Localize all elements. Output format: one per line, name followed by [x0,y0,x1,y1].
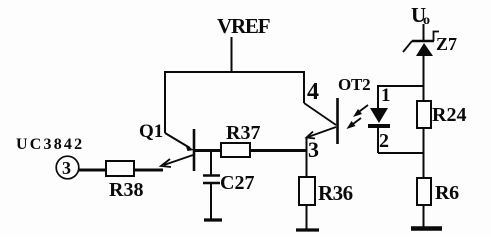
svg-text:1: 1 [381,85,391,106]
wire pin1 to LED anode [377,86,379,108]
capacitor C27 top plate [203,174,220,176]
wire VREF horizontal rail [164,71,304,73]
svg-text:UC3842: UC3842 [16,136,84,153]
resistor R38 body [106,161,134,176]
zener Z7 cathode bar [412,40,434,42]
ground under R6 [411,226,442,231]
svg-text:R6: R6 [435,182,459,204]
transistor Q1 collector diagonal [164,155,193,165]
wire pin2 bottom horizontal [378,152,424,154]
svg-text:R36: R36 [318,181,353,205]
zener Z7 right hook [434,32,440,42]
OT2 emitter open arrowhead [307,132,316,139]
wire R24 to R6 [423,128,425,178]
transistor Q1 base bar [193,129,196,171]
svg-text:2: 2 [379,130,389,152]
transistor Q1 emitter diagonal [165,133,190,148]
wire R36 bottom lead [306,205,308,229]
wire Uo to zener [423,24,425,41]
capacitor C27 bottom plate [203,182,220,184]
transistor Q1 collector open arrowhead [161,159,171,167]
svg-text:OT2: OT2 [338,75,370,94]
zener Z7 left wing [403,41,412,52]
wire left drop to Q1 emitter [164,71,166,133]
wire R38 to Q1 collector [134,169,163,172]
LED cathode bar [368,124,390,128]
svg-text:VREF: VREF [217,14,270,38]
wire VREF drop [231,37,233,72]
OT2 phototransistor emitter diagonal [308,127,336,137]
capacitor C27 bottom lead [210,183,212,219]
OT2 phototransistor bar [336,98,339,144]
wire pin 4 drop [303,71,305,103]
wire Q1 base to node 3 (thick) [195,149,306,152]
pin 3 circle of UC3842 [56,156,79,179]
svg-text:3: 3 [62,158,71,178]
wire R6 to ground [423,205,425,227]
svg-text:4: 4 [307,79,319,105]
wire pin 3 short drop [306,137,308,151]
svg-text:C27: C27 [220,172,254,194]
OT2 phototransistor collector diagonal [304,103,336,125]
wire R36 top lead [306,151,308,177]
transistor Q1 emitter arrowhead [186,145,195,151]
wire circle to R38 [79,169,106,172]
ground under R36 [296,228,319,231]
light arrow upper [353,105,368,117]
LED of OT2 (filled triangle) [370,108,388,123]
wire LED cathode down [377,128,379,153]
resistor R6 body [417,178,431,205]
svg-text:R38: R38 [109,179,143,201]
capacitor C27 top lead [210,151,212,175]
resistor R36 body [299,177,315,205]
zener Z7 anode triangle [416,43,433,56]
resistor R37 body [221,143,250,157]
svg-text:Q1: Q1 [139,121,163,142]
resistor R24 body [417,101,431,128]
ground under C27 [204,218,222,221]
wire pin1 bracket horizontal [377,85,424,87]
wire zener to rail [423,55,425,101]
svg-text:R24: R24 [432,104,466,126]
light arrow lower [347,118,362,129]
svg-text:Z7: Z7 [436,34,457,54]
svg-text:R37: R37 [226,122,260,144]
svg-text:3: 3 [308,137,319,162]
